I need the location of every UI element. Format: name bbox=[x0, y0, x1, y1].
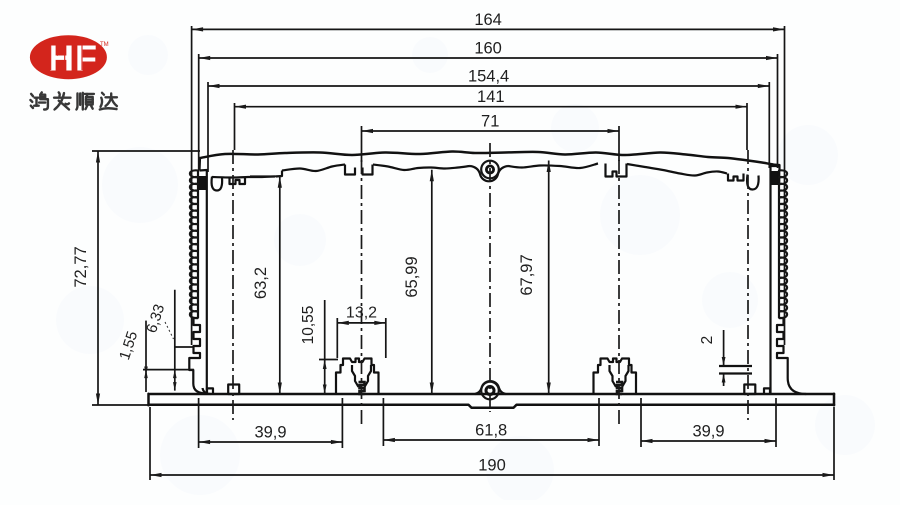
dimension 154,4 bbox=[208, 68, 769, 89]
svg-text:63,2: 63,2 bbox=[252, 267, 270, 299]
svg-text:HF: HF bbox=[48, 38, 98, 79]
left base curl bbox=[207, 388, 213, 393]
svg-text:2: 2 bbox=[699, 336, 716, 345]
svg-text:160: 160 bbox=[474, 40, 502, 58]
left wall inner face bbox=[206, 177, 208, 394]
centerline x361 bbox=[361, 160, 363, 428]
extension lines top bbox=[191, 26, 193, 345]
dimension 141 bbox=[235, 88, 748, 109]
top-right junction bbox=[771, 171, 781, 185]
dimension 63,2 bbox=[250, 176, 282, 394]
dimension 190 bbox=[150, 457, 834, 478]
svg-text:TM: TM bbox=[100, 42, 109, 48]
svg-text:65,99: 65,99 bbox=[403, 256, 421, 297]
svg-text:6,33: 6,33 bbox=[143, 302, 168, 335]
top center screw boss bbox=[470, 166, 508, 181]
dimension 10,55 bbox=[300, 300, 338, 394]
bottom T-boss right (x619) bbox=[594, 359, 637, 395]
centerline x748 bbox=[747, 150, 749, 420]
svg-text:71: 71 bbox=[481, 113, 499, 131]
dimension 61,8 bbox=[383, 422, 599, 443]
dimension 164 bbox=[192, 11, 785, 32]
top-right corner channel bbox=[728, 174, 744, 181]
top-left junction bbox=[197, 176, 207, 190]
dimension 160 bbox=[199, 40, 778, 61]
right wall inner face bbox=[769, 171, 771, 393]
svg-text:190: 190 bbox=[478, 457, 506, 475]
top-left corner channel bbox=[212, 177, 223, 191]
svg-text:10,55: 10,55 bbox=[300, 306, 317, 345]
base square left bbox=[228, 385, 239, 395]
svg-text:164: 164 bbox=[474, 11, 502, 29]
right wall lower channel bbox=[777, 318, 806, 394]
bottom center screw boss bbox=[475, 381, 506, 394]
dimension 71 bbox=[362, 113, 620, 134]
logo text hongfa shunda bbox=[30, 92, 117, 109]
left wall top bbox=[200, 158, 207, 177]
right base curl bbox=[764, 388, 770, 393]
top plate outer surface bbox=[200, 151, 773, 164]
base square right bbox=[744, 385, 755, 395]
centerline x619 bbox=[618, 160, 620, 428]
dimension 13,2 bbox=[337, 305, 386, 359]
logo HF red ellipse bbox=[30, 35, 109, 79]
svg-text:67,97: 67,97 bbox=[518, 254, 536, 295]
top plate inner surface bbox=[212, 177, 275, 178]
ceiling tab pair left (x361) bbox=[345, 165, 373, 175]
left fins bbox=[190, 170, 199, 318]
svg-text:154,4: 154,4 bbox=[468, 68, 509, 86]
svg-text:72,77: 72,77 bbox=[72, 246, 90, 287]
svg-text:61,8: 61,8 bbox=[475, 422, 507, 440]
svg-text:39,9: 39,9 bbox=[692, 423, 724, 441]
base plate bbox=[150, 393, 834, 396]
dimension 2 bbox=[699, 330, 726, 386]
right shelf lines (dim 2) bbox=[719, 365, 752, 367]
centerline x490 bbox=[489, 143, 491, 412]
dimension 39,9 bbox=[641, 423, 776, 444]
svg-text:141: 141 bbox=[477, 88, 505, 106]
left corner tick bbox=[175, 346, 194, 348]
right wall fin root bbox=[778, 170, 780, 318]
left wall lower channel bbox=[189, 318, 206, 393]
centerline x233 bbox=[232, 150, 234, 420]
dimension 39,9 bbox=[199, 424, 343, 445]
dimension 65,99 bbox=[403, 170, 434, 394]
dimension 67,97 bbox=[518, 161, 551, 395]
base fillets bbox=[203, 388, 211, 394]
right wall top bbox=[771, 165, 780, 172]
dimension 1,55 bbox=[116, 321, 194, 392]
svg-text:39,9: 39,9 bbox=[254, 424, 286, 442]
svg-text:13,2: 13,2 bbox=[346, 305, 377, 322]
left wall fin root bbox=[197, 170, 199, 318]
ceiling tab right (x619) bbox=[606, 164, 627, 177]
dimension 6,33 bbox=[143, 290, 176, 391]
extension lines bottom bbox=[198, 398, 200, 448]
dimension 72,77 bbox=[72, 151, 200, 405]
right fins bbox=[779, 170, 788, 318]
bottom T-boss left (x361) bbox=[336, 359, 379, 395]
